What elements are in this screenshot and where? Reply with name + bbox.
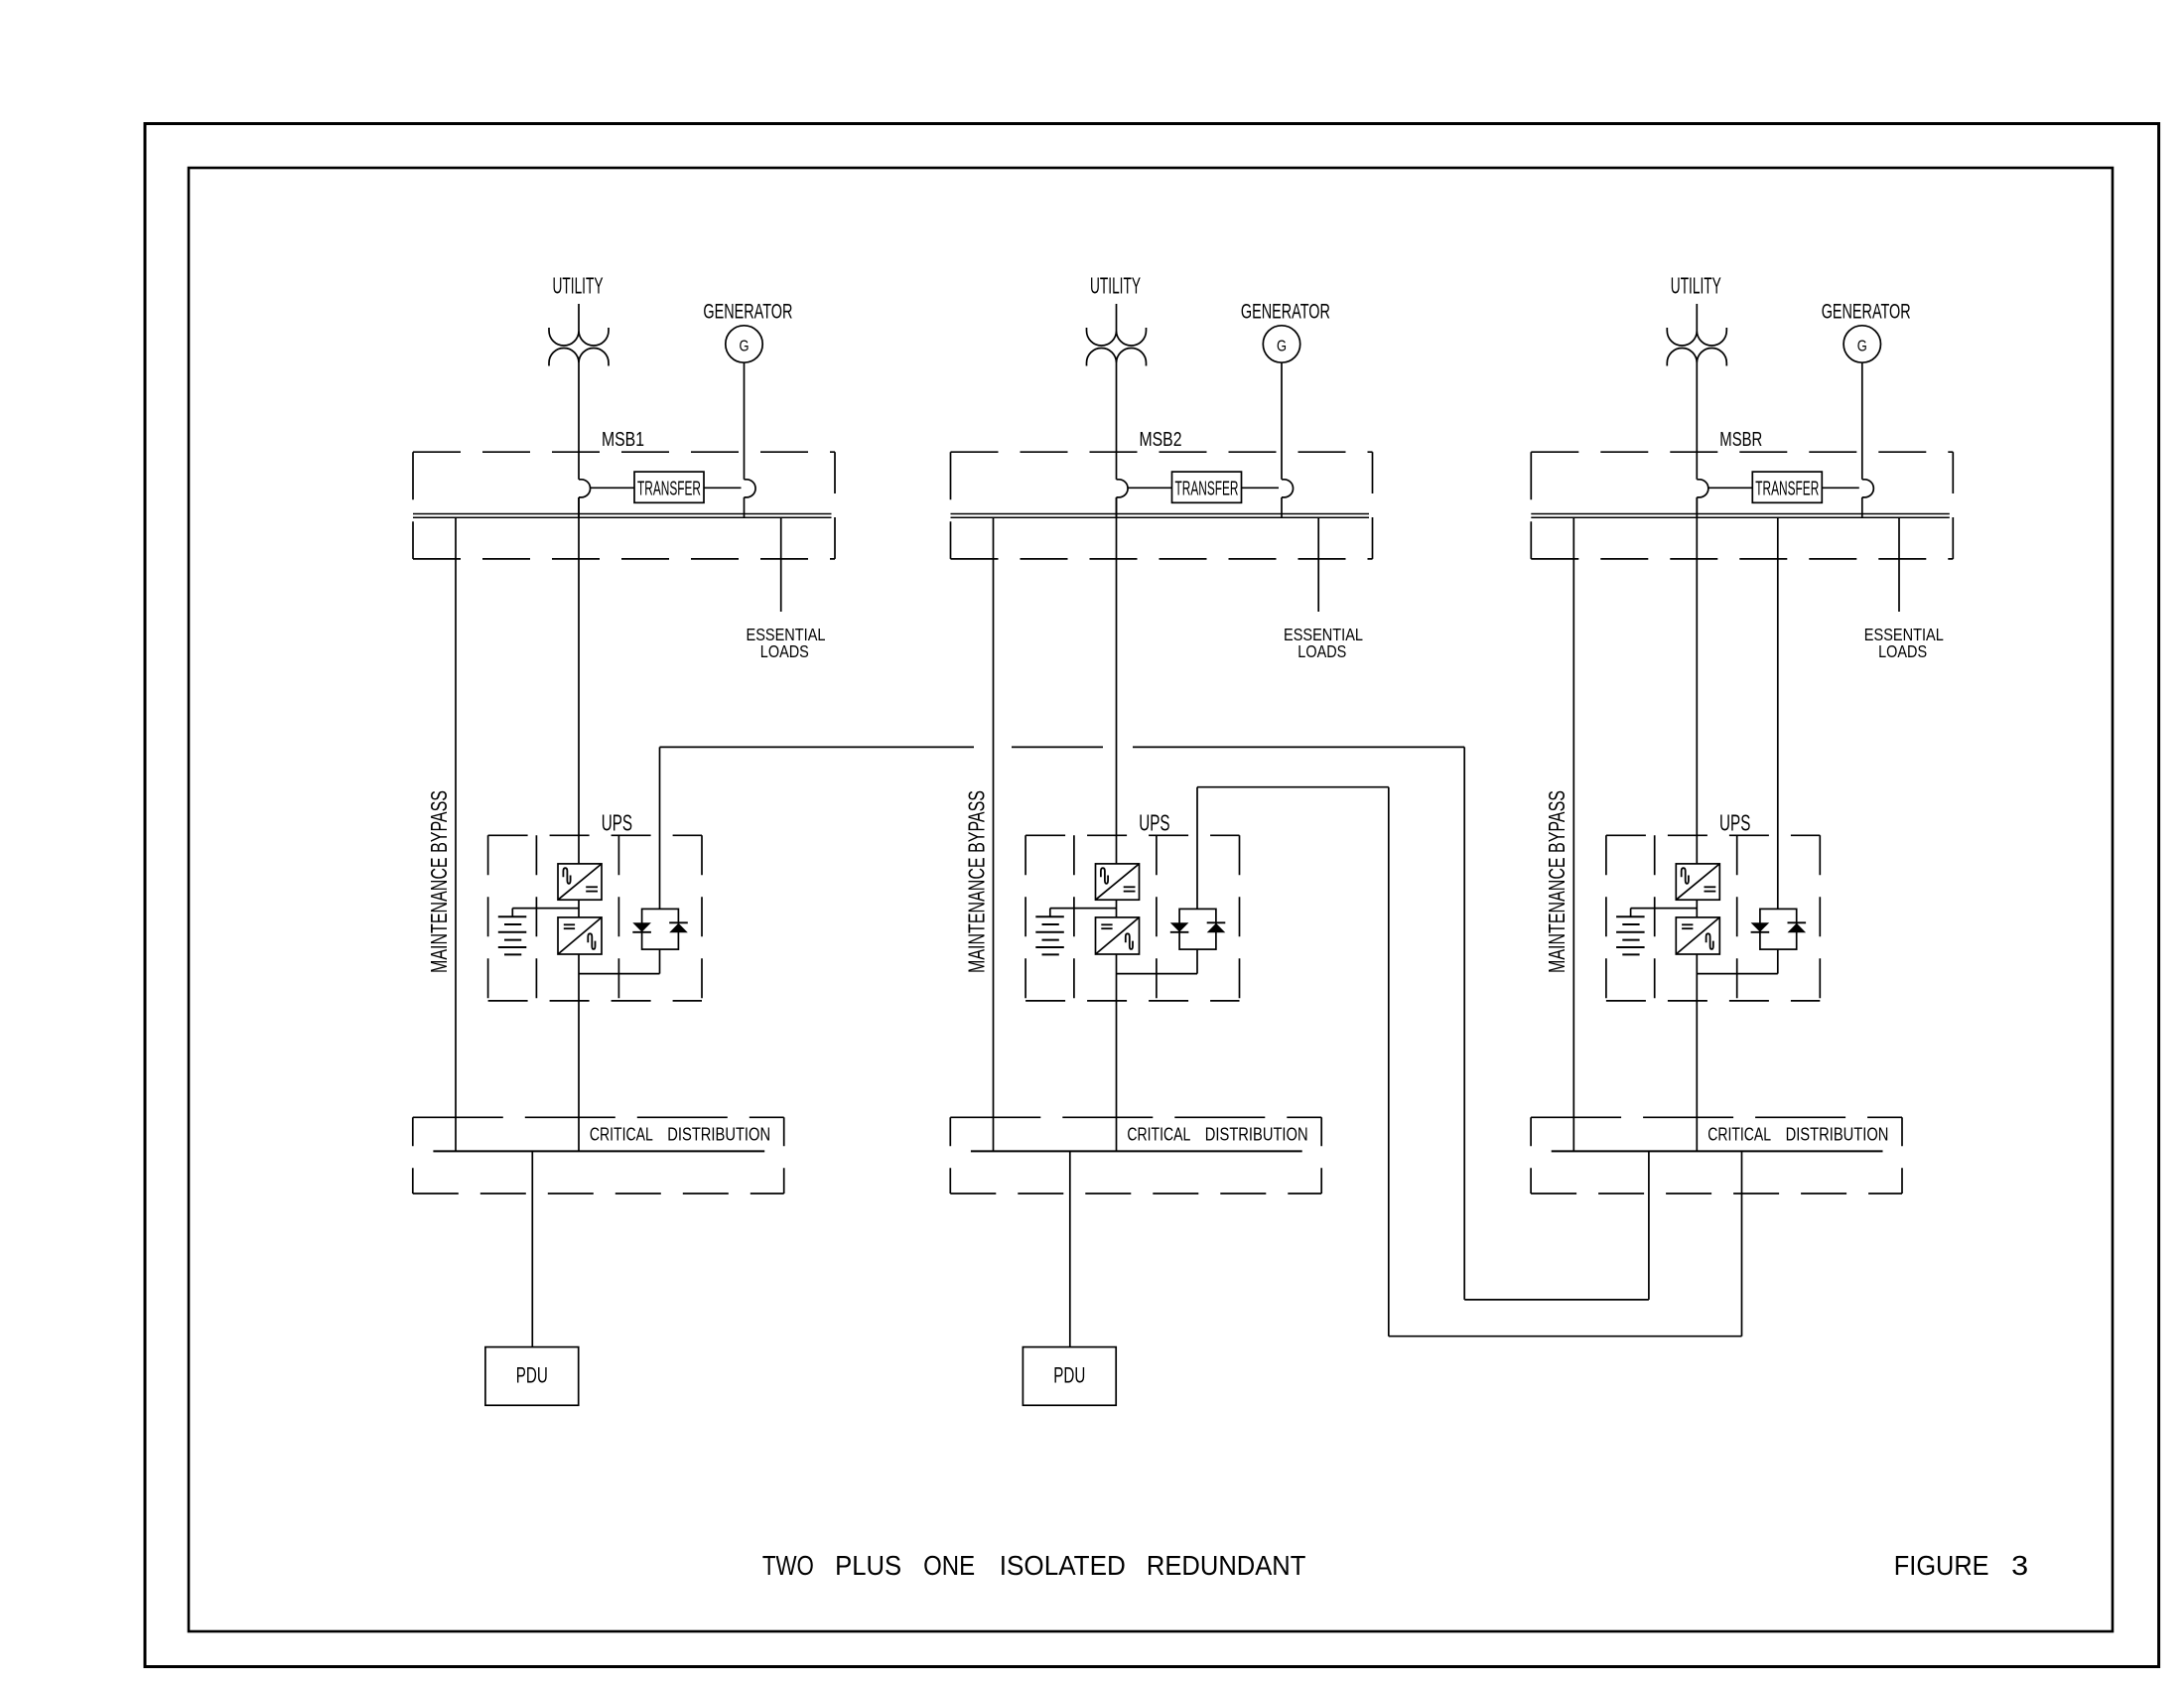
svg-text:G: G <box>740 339 750 355</box>
svg-text:UTILITY: UTILITY <box>553 273 604 299</box>
svg-text:MSBR: MSBR <box>1719 429 1762 451</box>
svg-text:ONE: ONE <box>923 1550 975 1581</box>
svg-text:TWO: TWO <box>762 1550 814 1581</box>
svg-text:TRANSFER: TRANSFER <box>1175 479 1239 500</box>
svg-text:CRITICAL: CRITICAL <box>1707 1124 1771 1145</box>
svg-text:3: 3 <box>2011 1550 2028 1581</box>
svg-text:MAINTENANCE BYPASS: MAINTENANCE BYPASS <box>963 790 989 973</box>
svg-text:CRITICAL: CRITICAL <box>1127 1124 1190 1145</box>
svg-text:TRANSFER: TRANSFER <box>1755 479 1819 500</box>
svg-text:UPS: UPS <box>1719 809 1750 835</box>
svg-text:TRANSFER: TRANSFER <box>637 479 701 500</box>
svg-text:PDU: PDU <box>516 1363 548 1388</box>
svg-text:G: G <box>1277 339 1287 355</box>
svg-text:DISTRIBUTION: DISTRIBUTION <box>1786 1124 1889 1145</box>
svg-text:DISTRIBUTION: DISTRIBUTION <box>1205 1124 1308 1145</box>
svg-text:UTILITY: UTILITY <box>1090 273 1141 299</box>
svg-text:UPS: UPS <box>602 809 632 835</box>
svg-text:FIGURE: FIGURE <box>1894 1550 1989 1581</box>
svg-text:MSB2: MSB2 <box>1140 429 1182 451</box>
svg-text:REDUNDANT: REDUNDANT <box>1147 1550 1306 1581</box>
svg-text:MSB1: MSB1 <box>602 429 644 451</box>
svg-text:LOADS: LOADS <box>1297 641 1346 661</box>
svg-text:LOADS: LOADS <box>1878 641 1927 661</box>
svg-text:G: G <box>1857 339 1867 355</box>
svg-text:MAINTENANCE BYPASS: MAINTENANCE BYPASS <box>426 790 452 973</box>
svg-text:UPS: UPS <box>1139 809 1169 835</box>
svg-text:GENERATOR: GENERATOR <box>703 300 792 323</box>
svg-text:DISTRIBUTION: DISTRIBUTION <box>667 1124 770 1145</box>
svg-text:LOADS: LOADS <box>760 641 809 661</box>
svg-text:PDU: PDU <box>1053 1363 1085 1388</box>
svg-text:GENERATOR: GENERATOR <box>1241 300 1330 323</box>
svg-text:PLUS: PLUS <box>835 1550 901 1581</box>
svg-text:GENERATOR: GENERATOR <box>1822 300 1911 323</box>
svg-text:ISOLATED: ISOLATED <box>1000 1550 1126 1581</box>
svg-text:MAINTENANCE BYPASS: MAINTENANCE BYPASS <box>1544 790 1570 973</box>
svg-text:UTILITY: UTILITY <box>1671 273 1721 299</box>
svg-text:CRITICAL: CRITICAL <box>590 1124 653 1145</box>
